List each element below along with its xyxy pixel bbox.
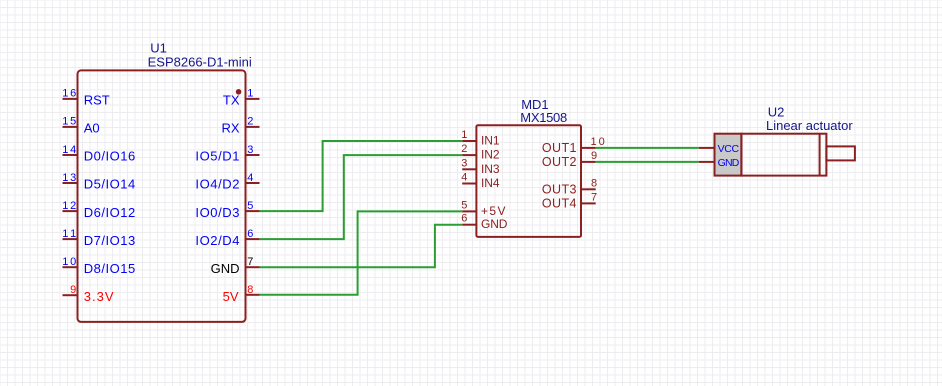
U1 pin 12 stub: [63, 210, 78, 212]
U1 pin 2 stub: [246, 126, 260, 128]
svg-text:RST: RST: [84, 93, 110, 108]
svg-text:D6/IO12: D6/IO12: [84, 205, 136, 220]
U1 pin 10 stub: [63, 266, 78, 268]
svg-text:IO2/D4: IO2/D4: [195, 233, 239, 248]
IC MD1 body: [476, 125, 581, 237]
MD1 pin 9 stub: [581, 161, 596, 163]
svg-text:11: 11: [62, 228, 76, 240]
MD1 pin 6 stub: [462, 224, 476, 226]
svg-text:8: 8: [591, 177, 597, 189]
svg-text:GND: GND: [718, 157, 740, 169]
svg-text:VCC: VCC: [718, 143, 740, 155]
U1 pin 7 stub: [246, 266, 260, 268]
svg-text:4: 4: [461, 172, 467, 184]
svg-text:9: 9: [591, 150, 597, 162]
svg-text:1: 1: [461, 129, 467, 141]
svg-text:1: 1: [247, 88, 253, 100]
svg-text:6: 6: [247, 228, 253, 240]
svg-text:GND: GND: [211, 261, 240, 276]
svg-text:3: 3: [461, 157, 467, 169]
svg-text:10: 10: [591, 136, 605, 148]
wire MD1.OUT1 to U2.VCC: [596, 147, 699, 149]
IC U1 body: [78, 70, 246, 322]
U2 GND pin stub: [699, 161, 715, 163]
svg-text:5: 5: [461, 199, 467, 211]
U2 actuator rod: [826, 146, 855, 160]
MD1 pin 8 stub: [581, 188, 596, 190]
U2 motor body: [741, 134, 826, 176]
svg-text:OUT3: OUT3: [542, 183, 577, 197]
svg-text:IO5/D1: IO5/D1: [195, 149, 239, 164]
svg-text:+5V: +5V: [481, 204, 506, 218]
svg-text:5V: 5V: [223, 289, 239, 304]
svg-text:U1: U1: [150, 41, 167, 56]
U1 pin 4 stub: [246, 182, 260, 184]
svg-text:IN1: IN1: [481, 134, 500, 148]
U1 pin 11 stub: [63, 238, 78, 240]
MD1 pin 1 stub: [462, 140, 476, 142]
svg-text:TX: TX: [223, 93, 240, 108]
svg-text:6: 6: [461, 213, 467, 225]
svg-text:5: 5: [247, 200, 253, 212]
svg-text:D8/IO15: D8/IO15: [84, 261, 136, 276]
svg-text:ESP8266-D1-mini: ESP8266-D1-mini: [148, 55, 252, 70]
svg-text:8: 8: [247, 284, 253, 296]
U1 pin 6 stub: [246, 238, 260, 240]
U1 pin 3 stub: [246, 154, 260, 156]
wire U1.IO2/D4 pin6 to MD1.IN2: [259, 155, 462, 239]
wire U1.IO0/D3 pin5 to MD1.IN1: [259, 141, 462, 211]
svg-text:D0/IO16: D0/IO16: [84, 149, 136, 164]
wire U1.5V pin8 to MD1.+5V: [259, 211, 462, 294]
U1 pin 9 stub: [63, 294, 78, 296]
U1 pin 15 stub: [63, 126, 78, 128]
svg-text:D5/IO14: D5/IO14: [84, 177, 136, 192]
U2 motor end cap line: [819, 134, 821, 176]
svg-text:7: 7: [247, 256, 253, 268]
svg-text:MX1508: MX1508: [520, 110, 567, 125]
svg-text:7: 7: [591, 191, 597, 203]
U2 motor gray terminal box: [715, 134, 742, 176]
U1 pin 14 stub: [63, 154, 78, 156]
svg-text:12: 12: [62, 200, 76, 212]
svg-text:2: 2: [461, 143, 467, 155]
svg-text:15: 15: [62, 116, 76, 128]
U1 pin 8 stub: [246, 294, 260, 296]
svg-text:OUT2: OUT2: [542, 155, 577, 169]
U1 pin 5 stub: [246, 210, 260, 212]
U1 pin 13 stub: [63, 182, 78, 184]
svg-text:3: 3: [247, 144, 253, 156]
svg-text:IO0/D3: IO0/D3: [195, 205, 239, 220]
svg-text:IN2: IN2: [481, 148, 500, 162]
MD1 pin 10 stub: [581, 147, 596, 149]
svg-text:10: 10: [62, 256, 76, 268]
MD1 pin 7 stub: [581, 202, 596, 204]
MD1 pin 4 stub: [462, 183, 476, 185]
svg-text:4: 4: [247, 172, 253, 184]
U1 pin 1 stub: [246, 98, 260, 100]
svg-text:13: 13: [62, 172, 76, 184]
svg-text:IN4: IN4: [481, 176, 500, 190]
svg-text:RX: RX: [221, 121, 239, 136]
svg-text:16: 16: [62, 88, 76, 100]
svg-text:OUT4: OUT4: [542, 197, 577, 211]
U1 pin 1 decoration dot: [236, 89, 242, 95]
MD1 pin 3 stub: [462, 168, 476, 170]
wire MD1.OUT2 to U2.GND: [596, 161, 699, 163]
svg-text:A0: A0: [84, 121, 100, 136]
svg-text:IO4/D2: IO4/D2: [195, 177, 239, 192]
svg-text:9: 9: [70, 284, 76, 296]
wire U1.GND pin7 to MD1.GND: [259, 225, 462, 267]
svg-text:14: 14: [62, 144, 76, 156]
svg-text:D7/IO13: D7/IO13: [84, 233, 136, 248]
svg-text:Linear actuator: Linear actuator: [766, 118, 853, 133]
svg-text:IN3: IN3: [481, 162, 500, 176]
svg-text:GND: GND: [481, 217, 508, 231]
MD1 pin 5 stub: [462, 210, 476, 212]
MD1 pin 2 stub: [462, 154, 476, 156]
U1 pin 16 stub: [63, 98, 78, 100]
svg-text:OUT1: OUT1: [542, 141, 577, 155]
svg-text:2: 2: [247, 116, 253, 128]
svg-text:3.3V: 3.3V: [84, 289, 114, 304]
U2 VCC pin stub: [699, 147, 715, 149]
